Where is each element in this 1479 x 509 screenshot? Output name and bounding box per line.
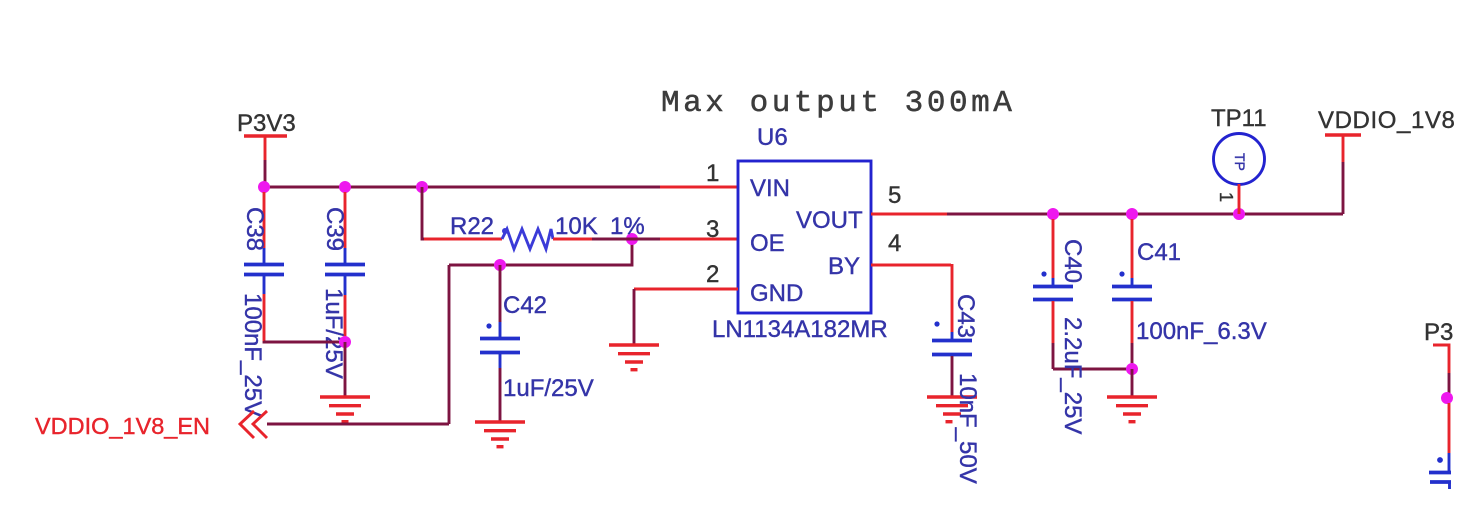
- junction node rail/R22: [416, 181, 428, 193]
- wire right edge drop: [1448, 373, 1451, 393]
- svg-text:C39: C39: [321, 207, 348, 251]
- svg-text:GND: GND: [750, 280, 803, 307]
- junction node C38/C39 bottom: [339, 336, 351, 348]
- wire C39 bottom to ground: [344, 342, 347, 397]
- ground (C41): [1107, 397, 1157, 422]
- wire EN net vertical riser: [448, 265, 451, 424]
- svg-text:LN1134A182MR: LN1134A182MR: [712, 316, 888, 343]
- wire P3V3 vertical drop: [264, 160, 267, 187]
- svg-text:10nF_50V: 10nF_50V: [954, 373, 981, 484]
- junction node rail/TP11: [1233, 208, 1245, 220]
- capacitor C41: [1112, 219, 1267, 369]
- svg-text:1: 1: [1216, 192, 1236, 202]
- wire EN net horizontal: [267, 423, 449, 426]
- ground (C43): [927, 397, 977, 422]
- svg-text:100nF_25V: 100nF_25V: [239, 293, 266, 417]
- U6 pin 1 stub: [660, 186, 738, 189]
- power symbol P3V3 (left): [237, 110, 296, 160]
- svg-text:TP11: TP11: [1211, 105, 1267, 132]
- ground (U6 GND): [609, 345, 659, 370]
- svg-text:P3: P3: [1424, 319, 1453, 346]
- svg-text:1uF/25V: 1uF/25V: [320, 288, 347, 379]
- svg-text:1uF/25V: 1uF/25V: [503, 375, 594, 402]
- junction node C40/C41 bottom: [1126, 363, 1138, 375]
- wire R22 to OE pin: [592, 238, 660, 241]
- capacitor C42: [480, 265, 594, 402]
- wire VDDIO_1V8 drop: [1342, 162, 1345, 214]
- capacitor C39: [320, 192, 365, 379]
- svg-text:2.2uF_25V: 2.2uF_25V: [1059, 317, 1086, 434]
- capacitor right edge (partial): [1429, 403, 1451, 489]
- junction node right edge: [1441, 392, 1453, 404]
- junction node rail/C40: [1047, 208, 1059, 220]
- junction node EN/OE: [626, 233, 638, 245]
- capacitor C38: [239, 192, 284, 417]
- wire R22 left drop: [422, 187, 425, 239]
- ground (C39): [320, 397, 370, 422]
- svg-text:C40: C40: [1059, 239, 1086, 283]
- off-page connector chevron VDDIO_1V8_EN: [240, 411, 267, 438]
- U6 pin 5 stub: [871, 213, 947, 216]
- svg-text:2: 2: [706, 261, 719, 288]
- junction node rail/C41: [1126, 208, 1138, 220]
- resistor R22: [424, 213, 645, 249]
- wire EN net to OE: [449, 239, 632, 265]
- svg-text:1%: 1%: [610, 213, 645, 240]
- svg-text:VDDIO_1V8: VDDIO_1V8: [1318, 107, 1455, 134]
- svg-text:R22: R22: [450, 213, 494, 240]
- svg-text:100nF_6.3V: 100nF_6.3V: [1136, 318, 1267, 345]
- capacitor C40: [1033, 219, 1086, 369]
- wire C42 to ground: [499, 368, 502, 422]
- svg-text:10K: 10K: [555, 213, 598, 240]
- svg-text:5: 5: [888, 182, 901, 209]
- svg-text:C42: C42: [503, 292, 547, 319]
- svg-text:C43: C43: [952, 294, 979, 338]
- U6 pin 4 stub: [871, 264, 951, 267]
- regulator U6 box: [738, 161, 871, 313]
- U6 pin 3 stub: [660, 238, 738, 241]
- wire C40 bottom to C41 bottom: [1053, 368, 1132, 371]
- junction node EN/C42: [494, 259, 506, 271]
- svg-text:P3V3: P3V3: [237, 110, 296, 137]
- svg-text:U6: U6: [757, 124, 788, 151]
- svg-text:OE: OE: [750, 230, 785, 257]
- svg-text:3: 3: [706, 216, 719, 243]
- svg-text:1: 1: [706, 160, 719, 187]
- power symbol VDDIO_1V8: [1318, 107, 1455, 162]
- svg-text:C38: C38: [241, 207, 268, 251]
- wire P3V3 rail: [264, 186, 660, 189]
- svg-text:Max output 300mA: Max output 300mA: [661, 86, 1015, 121]
- svg-text:VOUT: VOUT: [796, 207, 863, 234]
- svg-text:BY: BY: [828, 253, 860, 280]
- U6 pin 2 stub: [634, 288, 738, 291]
- capacitor C43: [932, 264, 979, 397]
- power symbol P3V3 (right edge): [1433, 345, 1449, 373]
- svg-text:VIN: VIN: [750, 175, 790, 202]
- junction node rail/C39: [339, 181, 351, 193]
- test point TP11: [1211, 105, 1267, 214]
- junction node rail/C38: [258, 181, 270, 193]
- svg-text:4: 4: [888, 230, 901, 257]
- wire C38 bottom to C39 bottom: [264, 341, 345, 342]
- wire GND pin drop: [633, 289, 636, 345]
- wire C41 bottom to ground: [1131, 369, 1134, 397]
- wire VDDIO_1V8 rail: [947, 213, 1343, 216]
- ground (C42): [475, 422, 525, 447]
- svg-text:TP: TP: [1232, 153, 1248, 171]
- svg-text:VDDIO_1V8_EN: VDDIO_1V8_EN: [35, 413, 210, 439]
- svg-text:C41: C41: [1137, 239, 1181, 266]
